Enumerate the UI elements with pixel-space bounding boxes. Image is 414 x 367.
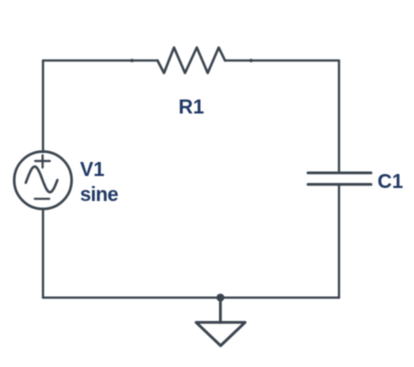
wire top-right segment <box>225 59 339 61</box>
resistor R1 <box>158 48 226 74</box>
junction ground node <box>216 294 224 302</box>
svg-text:R1: R1 <box>179 97 205 119</box>
wire bottom horizontal <box>43 296 339 298</box>
wire left vertical upper <box>42 61 44 153</box>
svg-text:V1: V1 <box>80 159 104 181</box>
wire right vertical upper <box>338 61 340 173</box>
svg-text:sine: sine <box>80 184 118 206</box>
voltage source V1 <box>14 152 71 209</box>
V1 plus sign <box>35 155 50 167</box>
pin junction right of R1 <box>249 59 253 63</box>
wire left vertical lower <box>42 209 44 298</box>
V1 minus sign <box>35 198 49 200</box>
wire right vertical lower <box>338 184 340 297</box>
capacitor C1 <box>308 173 371 185</box>
ground <box>196 298 245 346</box>
svg-text:C1: C1 <box>378 171 404 193</box>
wire top-left segment <box>43 59 158 61</box>
pin junction left of R1 <box>130 59 134 63</box>
